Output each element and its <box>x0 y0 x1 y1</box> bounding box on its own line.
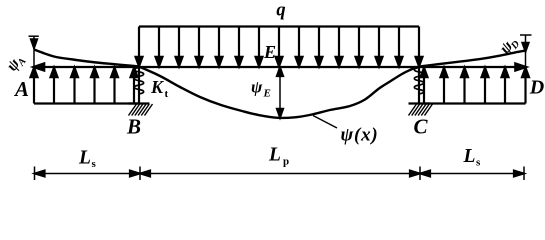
left reaction arrow 3 <box>73 74 75 104</box>
beam axis left arrowhead at A <box>33 63 44 70</box>
right reaction arrow 1 <box>423 74 425 104</box>
load q arrow 13 <box>378 27 380 61</box>
label psi_D rotated <box>497 33 523 58</box>
psi_E dimension line at midspan <box>279 67 281 117</box>
load q arrow 5 <box>218 27 220 61</box>
psi_A reference tick at A <box>29 35 39 37</box>
left reaction arrow 1 <box>33 74 35 104</box>
svg-text:A: A <box>13 77 29 101</box>
left reaction arrow 6 <box>133 74 135 104</box>
load q arrow 15 <box>418 27 420 61</box>
rotational spring at C <box>414 68 423 97</box>
ground line at B <box>129 102 150 104</box>
load q arrow 8 <box>278 27 280 61</box>
ground line at C <box>409 102 430 104</box>
svg-text:C: C <box>413 115 428 139</box>
load q arrow 2 <box>158 27 160 61</box>
beam axis line A-D <box>34 66 526 68</box>
load q arrow 10 <box>318 27 320 61</box>
load q arrow 12 <box>358 27 360 61</box>
load q arrow 1 <box>138 27 140 61</box>
dimension tick at B <box>139 167 141 181</box>
left reaction arrow 2 <box>53 74 55 104</box>
left reaction arrow 5 <box>113 74 115 104</box>
svg-text:p: p <box>283 156 289 168</box>
load q arrow 6 <box>238 27 240 61</box>
dimension tick at A <box>34 167 36 181</box>
psi_D reference tick at D <box>520 34 532 36</box>
support post at B <box>138 67 140 104</box>
ground hatch at B <box>129 104 153 116</box>
svg-text:K: K <box>150 77 165 97</box>
svg-text:E: E <box>263 42 276 62</box>
right reaction arrow 2 <box>443 74 445 104</box>
svg-text:s: s <box>476 157 481 169</box>
right reaction arrow 5 <box>504 74 506 104</box>
svg-text:t: t <box>165 88 169 100</box>
beam axis right arrowhead at D <box>515 63 526 70</box>
load q arrow 4 <box>198 27 200 61</box>
rotational spring Kt at B <box>134 68 143 97</box>
svg-text:D: D <box>529 77 544 99</box>
ground hatch at C <box>409 104 433 116</box>
svg-text:L: L <box>463 146 476 167</box>
dimension tick at D <box>523 167 525 181</box>
load q arrow 11 <box>338 27 340 61</box>
psi_D dimension line at D <box>525 35 527 67</box>
load q arrow 3 <box>178 27 180 61</box>
svg-text:E: E <box>263 88 271 100</box>
dimension tick at C <box>419 167 421 181</box>
load q arrow 7 <box>258 27 260 61</box>
dimension line Lp <box>140 173 420 175</box>
right reaction arrow 3 <box>463 74 465 104</box>
left reaction arrow 4 <box>93 74 95 104</box>
psi_A dimension line at A <box>33 36 35 67</box>
support post at C <box>418 67 420 104</box>
deflection curve psi(x) <box>34 50 526 118</box>
dimension line Ls right <box>420 173 524 175</box>
svg-text:L: L <box>78 148 91 169</box>
dimension line Ls left <box>35 173 141 175</box>
left reaction block bottom line <box>34 102 140 104</box>
distributed load q top line <box>139 25 419 27</box>
svg-text:L: L <box>268 145 281 166</box>
load q arrow 9 <box>298 27 300 61</box>
label psi_A rotated <box>3 51 28 76</box>
svg-text:s: s <box>92 158 97 170</box>
right reaction arrow 6 <box>524 74 526 104</box>
right reaction arrow 4 <box>484 74 486 104</box>
svg-text:q: q <box>276 1 285 21</box>
right reaction block bottom line <box>424 102 526 104</box>
svg-text:ψ: ψ <box>251 78 263 97</box>
svg-text:ψ(x): ψ(x) <box>341 125 379 146</box>
leader line to psi(x) label <box>313 116 337 129</box>
load q arrow 14 <box>398 27 400 61</box>
svg-text:B: B <box>126 115 141 139</box>
